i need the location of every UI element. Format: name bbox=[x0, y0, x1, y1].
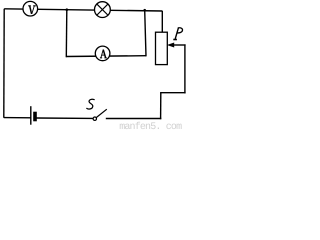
lamp L1 cross bbox=[97, 4, 109, 16]
switch S contact circle bbox=[93, 117, 96, 120]
switch S lever bbox=[96, 109, 107, 117]
wire bottom: battery to switch contact bbox=[37, 117, 94, 119]
rheostat label P bbox=[173, 28, 182, 40]
wire bottom: left corner to battery long plate bbox=[4, 117, 31, 119]
rheostat P wiper arrowhead bbox=[167, 43, 174, 48]
rheostat P body bbox=[156, 32, 168, 64]
wire ammeter branch horizontal bbox=[66, 55, 146, 58]
ammeter A1 circle bbox=[95, 46, 110, 61]
lamp L1 circle bbox=[95, 2, 111, 18]
wire jog horizontal bbox=[160, 92, 186, 94]
wire branch left vertical (node A down to ammeter) bbox=[65, 10, 68, 58]
wire left side bbox=[3, 9, 5, 118]
wire bottom: switch to bottom-right corner bbox=[106, 118, 162, 120]
wire branch right vertical (node B down to ammeter) bbox=[145, 10, 146, 56]
wire jog vertical down to bottom wire bbox=[160, 93, 162, 120]
svg-text:manfen5. com: manfen5. com bbox=[119, 121, 182, 132]
voltmeter V1 circle bbox=[23, 1, 38, 16]
battery long plate (+) bbox=[30, 106, 32, 125]
switch label S bbox=[86, 99, 94, 109]
node A junction dot bbox=[66, 8, 69, 11]
wire top (left corner to top-right corner) bbox=[4, 9, 162, 11]
rheostat P wiper arrow line bbox=[173, 44, 186, 46]
voltmeter V1 label bbox=[28, 6, 36, 14]
wire stub from top wire down to rheostat bbox=[161, 11, 163, 32]
wire wiper right vertical bbox=[184, 44, 186, 93]
ammeter A1 label bbox=[100, 50, 107, 58]
node B junction dot bbox=[143, 9, 146, 12]
battery short thick plate (-) bbox=[33, 112, 37, 122]
